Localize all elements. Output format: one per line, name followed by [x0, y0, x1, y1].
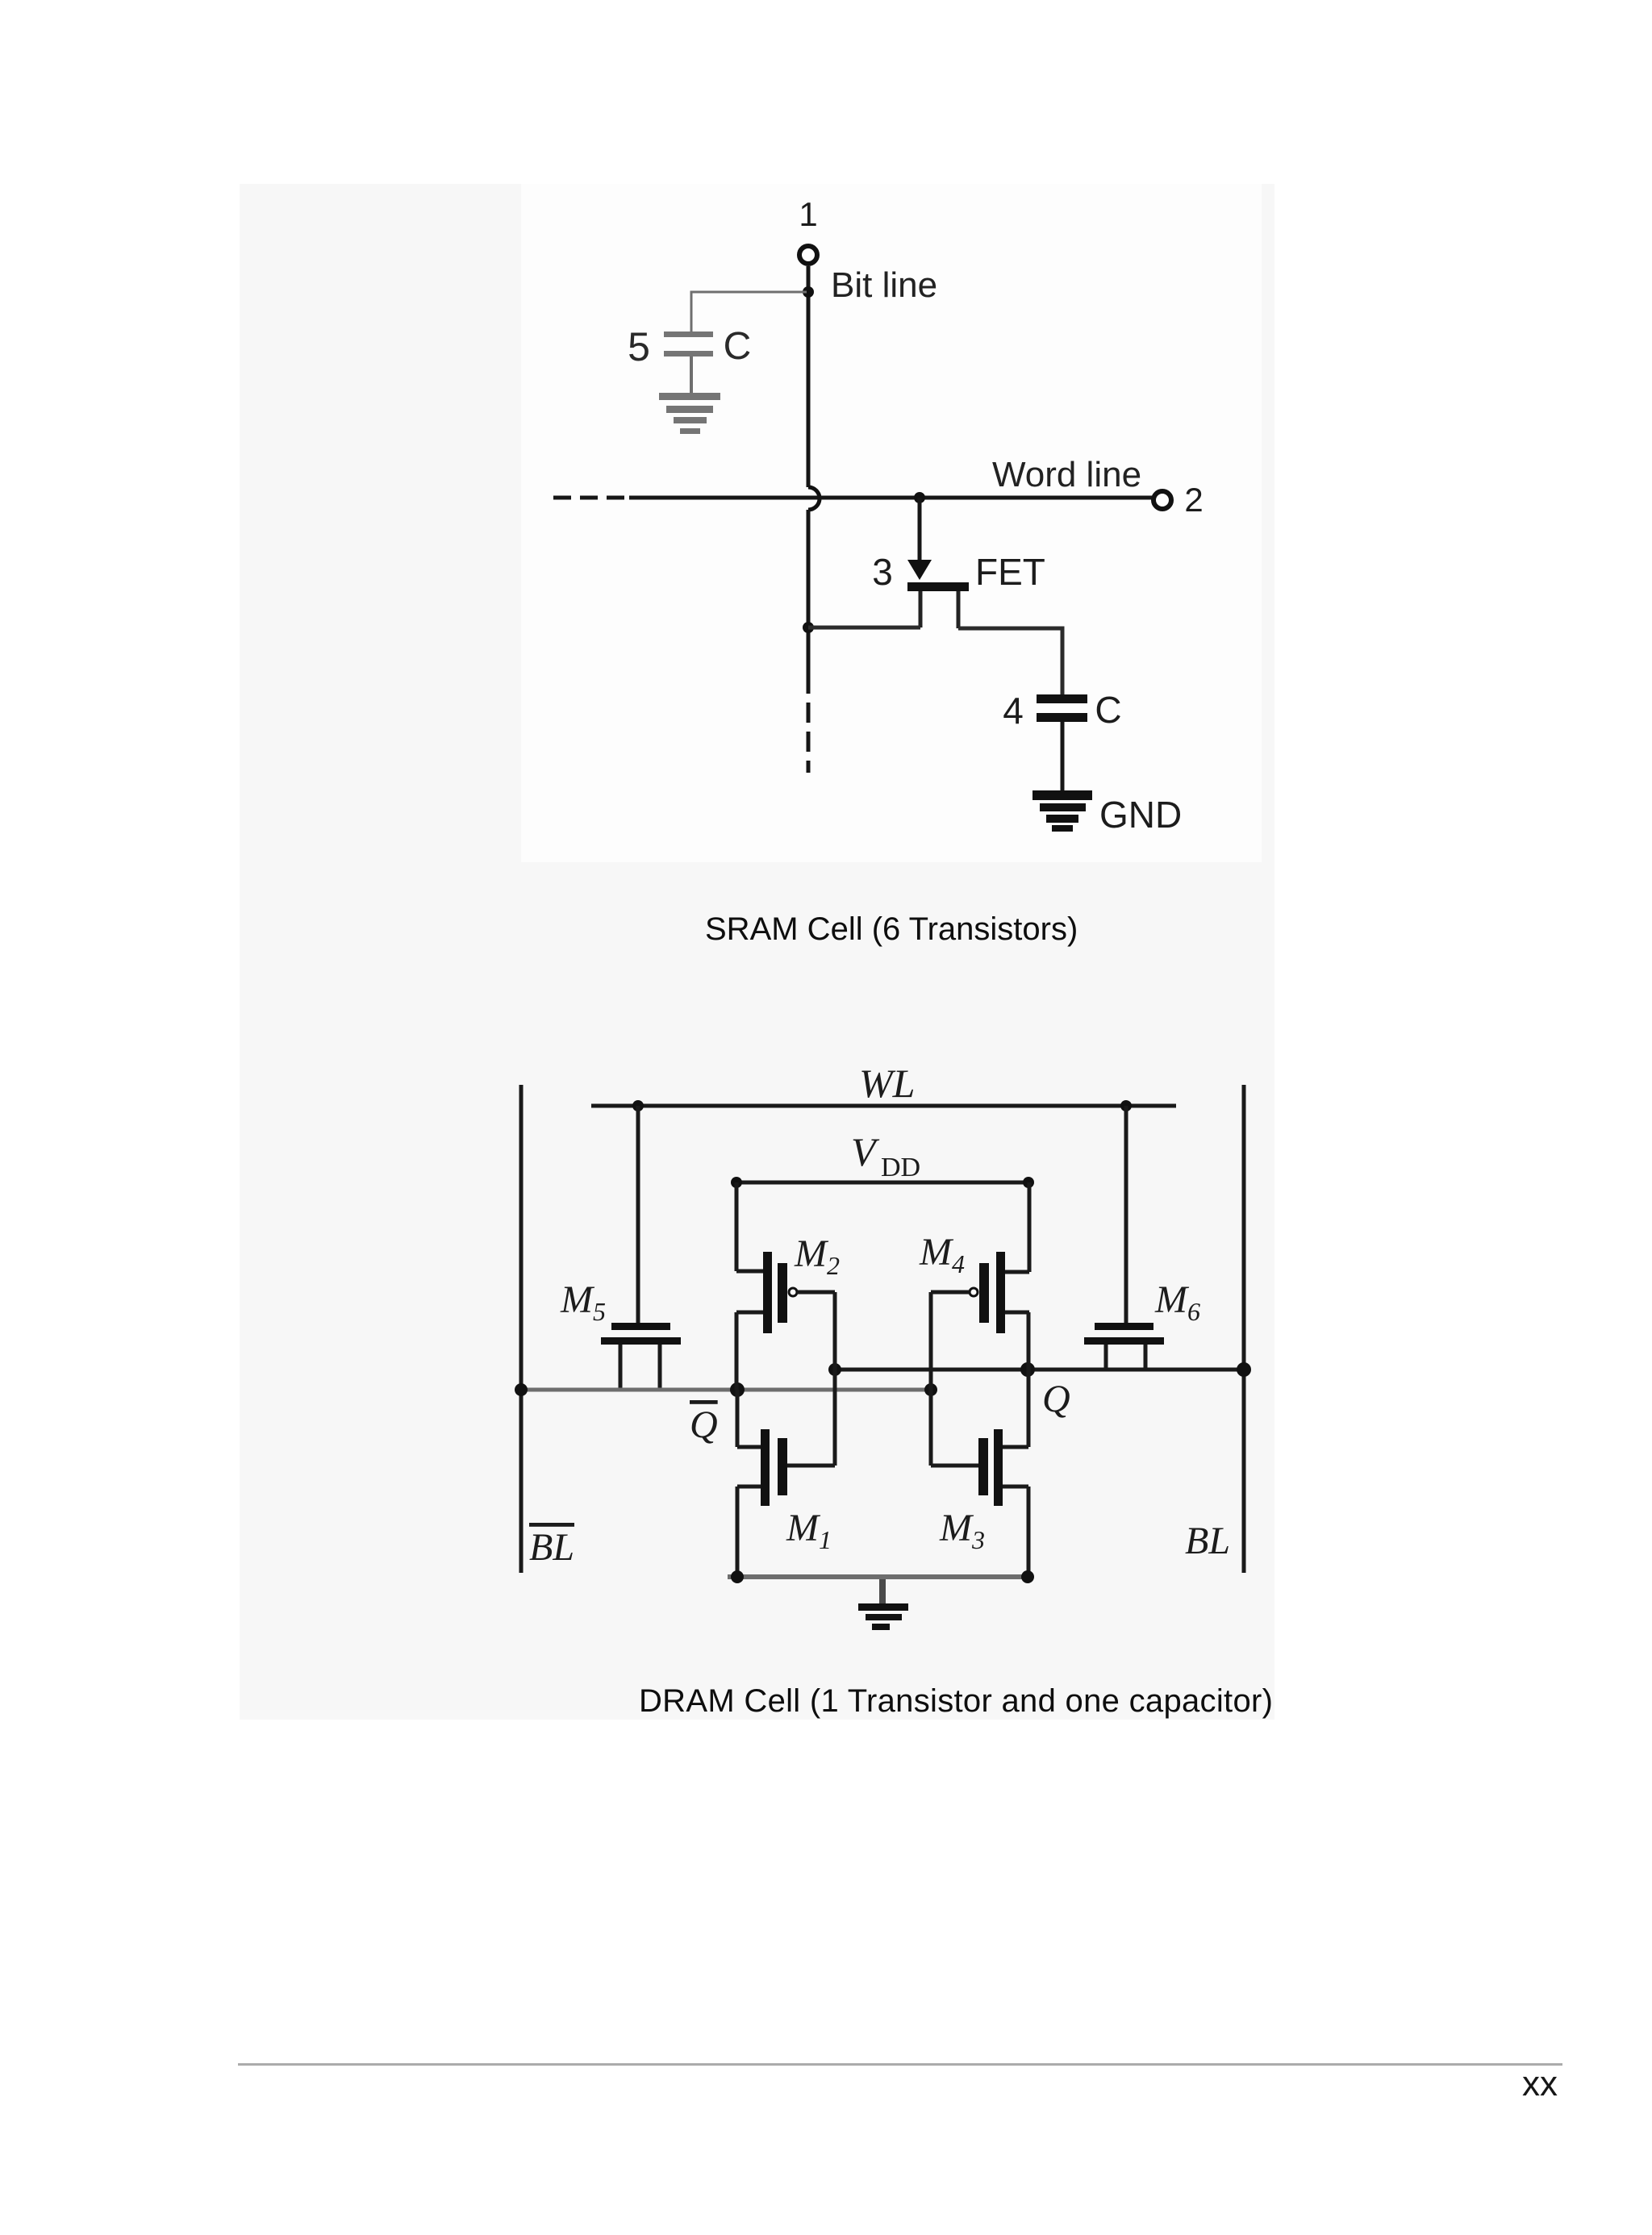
- svg-text:4: 4: [1003, 690, 1024, 732]
- wire bit line upper: [807, 266, 811, 487]
- node WL left junction: [632, 1100, 644, 1111]
- node: junction of FET source wire with bit line: [803, 622, 814, 633]
- FET gate bar: [907, 582, 969, 591]
- wire to capacitor C5: [691, 292, 807, 332]
- node VDD left junction: [731, 1177, 742, 1188]
- FET source stub: [919, 591, 923, 628]
- footer rule: [238, 2063, 1562, 2066]
- wire gate line of M4/M3 (cross couple to Q-bar): [929, 1292, 933, 1466]
- wire word line dashed left stub: [553, 496, 628, 500]
- svg-text:M4: M4: [919, 1231, 965, 1278]
- wire BL-bar bit line (left vertical): [519, 1085, 524, 1573]
- node Q-bar at BL-bar: [515, 1383, 528, 1396]
- wire bit line dashed continuation: [807, 703, 811, 773]
- node Q-bar at M4/M3 gate line: [924, 1383, 937, 1396]
- wire word line: [629, 496, 1153, 500]
- ground GND: [1032, 790, 1092, 832]
- svg-text:BL: BL: [1185, 1520, 1230, 1562]
- node: junction of capacitor 5 with bit line: [803, 286, 814, 298]
- wire FET drain to capacitor C4: [958, 628, 1062, 694]
- svg-text:Bit line: Bit line: [831, 265, 937, 305]
- svg-text:M1: M1: [786, 1507, 832, 1554]
- capacitor C4 plates: [1037, 694, 1087, 722]
- wire WL to M6 gate: [1124, 1106, 1128, 1323]
- node VDD right junction: [1023, 1177, 1034, 1188]
- svg-text:GND: GND: [1099, 794, 1182, 836]
- node Q at M4/M3 drains: [1020, 1362, 1035, 1377]
- transistor M5 (access, left): [601, 1323, 681, 1390]
- svg-text:C: C: [724, 325, 752, 368]
- node WL right junction: [1120, 1100, 1132, 1111]
- svg-text:DD: DD: [881, 1153, 920, 1182]
- svg-text:V: V: [851, 1129, 880, 1174]
- capacitor C5 plates: [664, 331, 713, 357]
- svg-text:M3: M3: [939, 1507, 985, 1554]
- wire bit line middle: [807, 510, 811, 694]
- transistor M1 (NMOS driver, left): [737, 1429, 835, 1506]
- wire hop of bit line over word line: [808, 487, 820, 510]
- svg-text:5: 5: [628, 324, 650, 369]
- wire M4 drain to Q: [1027, 1312, 1031, 1370]
- svg-text:M5: M5: [560, 1278, 606, 1326]
- node Q at BL: [1237, 1362, 1251, 1377]
- wire gate line of M2/M1 (cross couple to Q): [833, 1292, 837, 1466]
- wire FET source to bit line: [808, 626, 920, 630]
- svg-text:3: 3: [872, 551, 893, 593]
- wire node Q horizontal: [835, 1368, 1244, 1372]
- node ground rail right: [1021, 1570, 1034, 1583]
- FET drain stub: [957, 591, 961, 628]
- svg-text:Q: Q: [1042, 1378, 1070, 1420]
- wire node Q-bar horizontal: [521, 1388, 931, 1392]
- wire WL to M5 gate: [636, 1106, 640, 1323]
- ground symbol: [858, 1579, 908, 1630]
- wire VDD to M4 source: [1028, 1182, 1032, 1272]
- transistor M6 (access, right): [1084, 1323, 1164, 1370]
- wire Q-bar to M1 drain: [736, 1390, 740, 1447]
- wire M1 source to ground rail: [736, 1487, 740, 1579]
- svg-text:C: C: [1095, 689, 1121, 731]
- svg-text:WL: WL: [859, 1061, 915, 1106]
- node Q-bar at M2/M1 drains: [730, 1382, 745, 1397]
- svg-text:BL: BL: [529, 1526, 574, 1569]
- white image box of top schematic: [521, 184, 1262, 862]
- transistor M4 (PMOS load, right): [931, 1252, 1029, 1333]
- svg-text:Q: Q: [690, 1403, 718, 1446]
- wire word line to FET gate: [918, 498, 922, 563]
- svg-text:M6: M6: [1154, 1278, 1200, 1326]
- svg-text:1: 1: [799, 195, 817, 233]
- node Q at M2/M1 gate line: [828, 1363, 841, 1376]
- gray content band: [240, 184, 1274, 1720]
- terminal 1 (open circle): [799, 246, 817, 264]
- svg-text:Word line: Word line: [992, 455, 1141, 494]
- svg-text:FET: FET: [975, 551, 1045, 593]
- wire BL bit line (right vertical): [1242, 1085, 1246, 1573]
- wire M3 source to ground rail: [1027, 1487, 1031, 1579]
- svg-text:M2: M2: [794, 1232, 840, 1280]
- FET gate arrowhead: [907, 560, 932, 580]
- transistor M2 (PMOS load, left): [736, 1252, 835, 1333]
- wire VDD to M2 source: [735, 1182, 739, 1271]
- page number xx: [1522, 2066, 1558, 2102]
- wire VDD rail: [736, 1181, 1028, 1185]
- transistor M3 (NMOS driver, right): [931, 1429, 1028, 1506]
- wire ground rail: [728, 1574, 1032, 1579]
- wire Q to M3 drain: [1027, 1370, 1031, 1447]
- terminal 2 (open circle): [1153, 491, 1171, 509]
- svg-text:2: 2: [1184, 481, 1203, 519]
- wire capacitor C5 to ground: [690, 357, 693, 393]
- caption of bottom figure: [639, 1685, 1273, 1717]
- node: junction of FET gate with word line: [914, 492, 925, 503]
- ground (gray) below C5: [659, 393, 720, 434]
- caption of top figure: [705, 913, 1078, 945]
- wire capacitor C4 to ground: [1061, 722, 1065, 791]
- wire WL word line: [591, 1104, 1176, 1108]
- node ground rail left: [731, 1570, 744, 1583]
- wire M2 drain to Q-bar: [735, 1312, 739, 1390]
